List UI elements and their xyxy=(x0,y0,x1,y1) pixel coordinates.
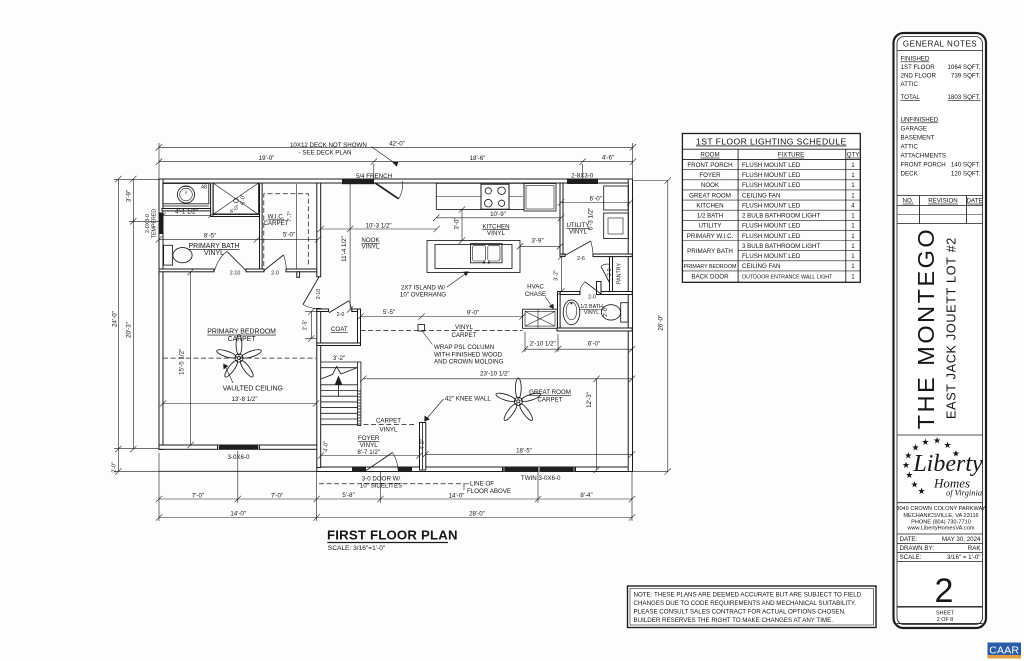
svg-text:CAAR: CAAR xyxy=(989,645,1019,657)
window W1: left wall 2-0X3-0 tempered xyxy=(159,213,162,235)
drawing title: first floor plan xyxy=(327,528,458,552)
svg-text:1ST FLOOR: 1ST FLOOR xyxy=(901,64,936,71)
dim line: kitchen 10'-9" xyxy=(433,215,564,221)
interior wall: W.I.C. left xyxy=(260,183,263,269)
dim line: great room 12'-3" vertical xyxy=(593,376,599,474)
label: utility 6'-0" xyxy=(590,196,602,203)
svg-text:2ND FLOOR: 2ND FLOOR xyxy=(901,73,937,80)
svg-text:18'-5": 18'-5" xyxy=(516,447,532,454)
svg-text:2'-10 1/2": 2'-10 1/2" xyxy=(530,340,556,347)
svg-text:7'-7": 7'-7" xyxy=(288,211,294,222)
svg-text:FIXTURE: FIXTURE xyxy=(778,152,804,159)
svg-text:DATE:: DATE: xyxy=(900,536,918,543)
svg-text:8'-7 1/2": 8'-7 1/2" xyxy=(357,449,380,456)
svg-text:2-0X3-0: 2-0X3-0 xyxy=(145,214,151,233)
label: 19'-0" xyxy=(259,155,275,162)
fixture: primary toilet xyxy=(164,245,192,265)
leader: psl column xyxy=(423,332,433,345)
title block: plan name vertical xyxy=(913,227,959,429)
svg-text:1/2 BATH: 1/2 BATH xyxy=(697,213,723,220)
fixture: primary bath vanity counter xyxy=(163,184,209,207)
interior wall: shower left stub xyxy=(211,183,214,217)
svg-text:10" OVERHANG: 10" OVERHANG xyxy=(400,292,446,299)
svg-text:★: ★ xyxy=(902,460,910,470)
svg-text:18'-6": 18'-6" xyxy=(470,155,486,162)
interior wall: below shower xyxy=(213,214,260,217)
svg-text:CARPET: CARPET xyxy=(376,417,401,424)
svg-text:DRAWN BY:: DRAWN BY: xyxy=(900,545,935,552)
svg-text:3'-2": 3'-2" xyxy=(333,355,345,362)
svg-text:ATTACHMENTS: ATTACHMENTS xyxy=(901,153,947,160)
svg-text:1064 SQFT.: 1064 SQFT. xyxy=(947,64,980,71)
title block: finished areas xyxy=(901,56,981,102)
svg-text:DECK: DECK xyxy=(901,171,919,178)
interior wall: bath/bedroom wall west segment xyxy=(159,269,214,272)
label: coat xyxy=(331,326,348,333)
leader: line of floor above xyxy=(463,484,465,490)
dim line: half-bath hall 3'-2" vertical xyxy=(558,253,564,294)
svg-text:CARPET: CARPET xyxy=(263,220,288,227)
svg-text:FLUSH MOUNT LED: FLUSH MOUNT LED xyxy=(742,233,801,240)
svg-text:9'-0": 9'-0" xyxy=(467,310,479,317)
label: vaulted ceiling xyxy=(223,386,283,393)
interior wall: utility bottom west stub xyxy=(560,254,565,257)
svg-text:1: 1 xyxy=(851,182,855,189)
svg-text:3'-2": 3'-2" xyxy=(554,270,560,281)
svg-text:Liberty: Liberty xyxy=(912,451,983,477)
svg-text:VINYL: VINYL xyxy=(569,229,587,236)
svg-text:VINYL: VINYL xyxy=(204,250,224,257)
lighting schedule title xyxy=(696,137,847,147)
dim line: great room 23'-10 1/2" xyxy=(360,376,635,382)
svg-text:3'-0": 3'-0" xyxy=(454,217,461,229)
svg-text:GREAT ROOM: GREAT ROOM xyxy=(529,389,571,396)
line of floor above dashed xyxy=(319,483,469,485)
exterior wall: right xyxy=(628,179,632,472)
svg-text:KITCHEN: KITCHEN xyxy=(696,203,723,210)
svg-text:1: 1 xyxy=(851,243,855,250)
dim line: hall 5'-5" / 9'-0" xyxy=(357,313,525,319)
label: coat 2'-5" xyxy=(303,320,309,331)
label: 4'-6" xyxy=(602,155,614,162)
label: bath door 2-10 xyxy=(230,270,241,276)
window W4: utility 2-8X3-0 xyxy=(567,179,598,184)
svg-text:1: 1 xyxy=(851,253,855,260)
knee wall at great room xyxy=(420,423,426,471)
svg-text:1: 1 xyxy=(851,223,855,230)
svg-text:8049 CROWN COLONY PARKWAY: 8049 CROWN COLONY PARKWAY xyxy=(896,506,986,512)
svg-text:6'-3 1/2": 6'-3 1/2" xyxy=(587,208,594,231)
label: 10'-9" xyxy=(490,211,506,218)
label: bath 6'-0" xyxy=(588,340,600,347)
svg-text:1803 SQFT.: 1803 SQFT. xyxy=(947,94,980,101)
svg-text:FLUSH MOUNT LED: FLUSH MOUNT LED xyxy=(742,223,801,230)
porch edge line xyxy=(159,470,317,472)
label: utility door 2-6 xyxy=(577,256,585,262)
label: 23'-10 1/2" xyxy=(480,371,510,378)
label: great room xyxy=(529,389,571,403)
svg-text:CARPET: CARPET xyxy=(228,336,257,343)
label: psl column note xyxy=(434,344,504,366)
label: 13'-8 1/2" xyxy=(231,396,257,403)
svg-text:VINYL: VINYL xyxy=(487,230,505,237)
svg-text:VINYL: VINYL xyxy=(380,427,398,434)
window W3: twin 3-0X6-0 great room xyxy=(502,467,576,472)
dim line: nook 10'-3 1/2" xyxy=(318,226,440,232)
svg-text:42'-0": 42'-0" xyxy=(389,141,405,148)
stairs railing balusters xyxy=(358,362,361,426)
fixture: washer box xyxy=(604,186,629,210)
svg-text:TOTAL: TOTAL xyxy=(901,94,921,101)
leader: deck note xyxy=(371,147,398,167)
dim line: vanity 4'-1 1/2" xyxy=(160,213,213,218)
svg-text:VINYL: VINYL xyxy=(360,442,378,449)
dim line: utility 6'-0" xyxy=(558,199,633,205)
svg-text:120 SQFT.: 120 SQFT. xyxy=(951,171,981,178)
label: wic 7'-7" xyxy=(288,211,294,222)
svg-text:FLUSH MOUNT LED: FLUSH MOUNT LED xyxy=(742,182,801,189)
svg-text:BASEMENT: BASEMENT xyxy=(901,135,935,142)
svg-text:CARPET: CARPET xyxy=(537,396,562,403)
svg-text:8'-5": 8'-5" xyxy=(204,233,216,240)
svg-text:CARPET: CARPET xyxy=(451,332,476,339)
interior wall: half-bath top west segment xyxy=(558,292,581,295)
svg-text:48: 48 xyxy=(201,185,207,191)
ceiling fan: primary bedroom xyxy=(216,335,262,379)
fixture: range/stove xyxy=(481,184,509,209)
label: bottom dims row1 xyxy=(192,492,593,499)
svg-text:15'-5 1/2": 15'-5 1/2" xyxy=(179,349,186,375)
interior wall: kitchen/utility xyxy=(560,183,563,255)
svg-text:GREAT ROOM: GREAT ROOM xyxy=(689,192,731,199)
label: island note xyxy=(400,284,446,298)
svg-text:AND CROWN MOLDING: AND CROWN MOLDING xyxy=(434,359,504,366)
door D1: french leaf and swing xyxy=(375,181,403,199)
lighting schedule rows xyxy=(684,162,856,280)
svg-text:PRIMARY BEDROOM: PRIMARY BEDROOM xyxy=(684,264,737,270)
svg-text:28'-0": 28'-0" xyxy=(469,510,485,517)
interior wall: utility bottom east / pantry top xyxy=(593,254,632,257)
liberty homes logo script xyxy=(912,451,983,498)
extension lines: bottom dims xyxy=(159,451,632,521)
exterior wall: top xyxy=(159,179,632,183)
door D4: wic door leaf xyxy=(264,255,286,271)
label: half bath door 2-0 xyxy=(588,295,596,301)
svg-text:2-10: 2-10 xyxy=(230,270,241,276)
svg-text:1: 1 xyxy=(851,192,855,199)
interior wall: half-bath bottom xyxy=(557,328,632,331)
title block: date/drawn/scale rows xyxy=(897,534,983,562)
door D8: pantry door leaf xyxy=(601,264,610,283)
svg-text:10'-3 1/2": 10'-3 1/2" xyxy=(366,222,392,229)
interior wall: bath/bedroom wall mid segment xyxy=(246,269,264,272)
label: 2'-10 1/2" xyxy=(530,340,556,347)
svg-text:PLEASE CONSULT SALES CONTRACT: PLEASE CONSULT SALES CONTRACT FOR ACTUAL… xyxy=(634,609,847,616)
svg-text:TWIN 3-0X6-0: TWIN 3-0X6-0 xyxy=(521,475,561,482)
dim line: bath/wic 8'-5" / 5'-0" xyxy=(156,236,321,242)
svg-text:FRONT PORCH: FRONT PORCH xyxy=(687,162,732,169)
leader: hvac chase xyxy=(545,297,554,310)
dim line: left 3'-9" / 20'-3" xyxy=(130,176,136,452)
svg-text:NOTE: THESE PLANS ARE DEEMED A: NOTE: THESE PLANS ARE DEEMED ACCURATE BU… xyxy=(634,592,862,599)
label: 9'-0" xyxy=(467,310,479,317)
label: toilet 2'-0" xyxy=(603,306,609,317)
wall stub below wic xyxy=(297,272,300,278)
interior wall: W.I.C. right / hall west (upper) xyxy=(317,183,321,277)
extension lines: top dims xyxy=(159,143,633,181)
svg-text:★: ★ xyxy=(904,450,912,460)
label: bedroom door 2-10 xyxy=(316,289,322,300)
svg-text:2X7 ISLAND W/: 2X7 ISLAND W/ xyxy=(401,284,446,291)
liberty homes logo stars xyxy=(902,436,960,496)
interior wall: coat closet top east segment xyxy=(352,309,361,312)
label: primary bath room xyxy=(189,243,240,257)
ceiling fan: great room xyxy=(495,378,541,422)
label: 5/4 french xyxy=(356,173,392,180)
svg-text:MAY 30, 2024: MAY 30, 2024 xyxy=(942,536,981,543)
dim line: half-bath 2'-10 1/2" / 6'-0" xyxy=(522,332,635,352)
svg-text:FLUSH MOUNT LED: FLUSH MOUNT LED xyxy=(742,172,801,179)
svg-text:ATTIC: ATTIC xyxy=(901,81,919,88)
svg-text:BUILDER RESERVES THE RIGHT TO: BUILDER RESERVES THE RIGHT TO MAKE CHANG… xyxy=(634,617,834,624)
svg-text:739 SQFT.: 739 SQFT. xyxy=(951,73,981,80)
dim line: top segments 19'/18'-6"/4'-6" xyxy=(156,159,636,165)
svg-text:PRIMARY BATH: PRIMARY BATH xyxy=(687,248,733,255)
label: 10'-3 1/2" xyxy=(366,222,392,229)
svg-text:SHEET: SHEET xyxy=(936,611,955,617)
label: pantry xyxy=(607,263,623,284)
svg-text:20'-3": 20'-3" xyxy=(126,322,133,338)
svg-text:5'-8": 5'-8" xyxy=(342,492,354,499)
svg-text:www.LibertyHomesVA.com: www.LibertyHomesVA.com xyxy=(906,526,974,532)
label: wic door 2-0 xyxy=(271,270,279,276)
svg-text:42" KNEE WALL: 42" KNEE WALL xyxy=(445,395,492,402)
svg-text:2-0: 2-0 xyxy=(607,268,613,276)
svg-text:2: 2 xyxy=(935,572,954,610)
svg-text:2 OF 8: 2 OF 8 xyxy=(937,617,953,623)
dim line: foyer 8'-7 1/2" xyxy=(318,452,423,458)
svg-text:LINE OF: LINE OF xyxy=(470,480,494,487)
svg-text:TEMPERED: TEMPERED xyxy=(151,209,157,239)
svg-text:ATTIC: ATTIC xyxy=(901,144,919,151)
svg-text:4'-0": 4'-0" xyxy=(420,439,426,450)
psl column xyxy=(418,325,425,332)
door D2: front door sidelites xyxy=(352,467,412,472)
exterior wall: bedroom bottom xyxy=(159,445,319,449)
label: primary bedroom xyxy=(207,329,276,343)
title block: logo section divider xyxy=(897,435,983,503)
svg-text:2'-0": 2'-0" xyxy=(112,462,118,473)
svg-text:19'-0": 19'-0" xyxy=(259,155,275,162)
label: 5'-5" xyxy=(383,309,395,316)
dim line: nook vertical 11'-4 1/2" xyxy=(347,184,353,313)
label: 2-8X3-0 window xyxy=(571,173,594,180)
svg-text:NO.: NO. xyxy=(902,198,913,205)
svg-text:THE MONTEGO: THE MONTEGO xyxy=(913,227,939,429)
svg-text:FLUSH MOUNT LED: FLUSH MOUNT LED xyxy=(742,203,801,210)
svg-text:4'-6": 4'-6" xyxy=(602,155,614,162)
fixture: hvac chase with X xyxy=(523,309,558,328)
label: 48 vanity xyxy=(201,185,207,191)
label: 4'-1 1/2" xyxy=(175,209,198,216)
label: vinyl/carpet transition xyxy=(451,324,476,339)
svg-text:1: 1 xyxy=(851,273,855,280)
svg-text:1: 1 xyxy=(851,233,855,240)
svg-text:PRIMARY W.I.C.: PRIMARY W.I.C. xyxy=(687,233,734,240)
door D9: half-bath door leaf xyxy=(580,282,602,294)
interior wall: vanity base xyxy=(162,209,212,211)
label: carpet/vinyl at stairs xyxy=(376,417,401,433)
svg-text:PHONE (804) 730-7710: PHONE (804) 730-7710 xyxy=(911,519,971,525)
dim line: bottom 14'-0" / 28'-0" xyxy=(156,514,635,520)
interior wall: stub at half-bath door hinge xyxy=(597,282,602,295)
svg-text:7'-0": 7'-0" xyxy=(192,492,204,499)
title block: address xyxy=(896,506,986,531)
svg-text:★: ★ xyxy=(917,486,925,496)
label: deck note xyxy=(290,142,367,157)
fixture: kitchen island with overhang xyxy=(427,241,520,273)
interior wall: half-bath left xyxy=(558,292,561,332)
svg-text:23'-10 1/2": 23'-10 1/2" xyxy=(480,371,510,378)
svg-text:FINISHED: FINISHED xyxy=(901,56,930,63)
title block: unfinished areas xyxy=(901,117,981,178)
interior wall: coat closet bottom xyxy=(317,343,361,346)
dim line: 3'-9" island to wall xyxy=(517,243,563,249)
svg-text:EAST JACK JOUETT LOT #2: EAST JACK JOUETT LOT #2 xyxy=(945,237,959,419)
svg-text:★: ★ xyxy=(905,470,913,480)
svg-text:2-0: 2-0 xyxy=(337,312,345,318)
dim line: bedroom 15'-5 1/2" vertical xyxy=(187,269,193,448)
svg-text:SCALE:: SCALE: xyxy=(900,554,922,561)
fixture: island double sink xyxy=(471,244,503,264)
fixture: half-bath toilet xyxy=(601,303,628,322)
svg-text:VINYL: VINYL xyxy=(455,324,473,331)
svg-text:140 SQFT.: 140 SQFT. xyxy=(951,162,981,169)
svg-text:CEILING FAN: CEILING FAN xyxy=(742,263,781,270)
caar logo xyxy=(988,643,1022,659)
label: 12'-3" xyxy=(586,392,593,408)
label: 18'-6" xyxy=(470,155,486,162)
svg-text:FOYER: FOYER xyxy=(699,172,721,179)
dim line: great room 18'-5" xyxy=(422,451,635,457)
svg-text:1ST FLOOR LIGHTING SCHEDULE: 1ST FLOOR LIGHTING SCHEDULE xyxy=(696,137,847,147)
svg-text:1: 1 xyxy=(851,172,855,179)
wic shelving dashed xyxy=(264,194,309,267)
svg-text:11'-4 1/2": 11'-4 1/2" xyxy=(341,236,348,262)
label: shower 6'-0" xyxy=(241,194,247,205)
svg-text:5/4 FRENCH: 5/4 FRENCH xyxy=(356,173,392,180)
fixture: half-bath pedestal sink xyxy=(563,300,580,325)
leader: vaulted ceiling xyxy=(223,364,233,384)
svg-text:2-6: 2-6 xyxy=(577,256,585,262)
svg-text:CEILING FAN: CEILING FAN xyxy=(742,192,781,199)
dim line: left 24'-0" / 2'-0" xyxy=(115,176,121,475)
extension lines: left dims xyxy=(114,179,160,471)
door D1: 5/4 french door bar xyxy=(342,179,374,184)
lighting schedule table frame xyxy=(682,134,860,283)
dim line: coat 2'-5" vertical xyxy=(305,308,317,341)
label: knee 4'-0" xyxy=(420,439,426,450)
svg-text:10X12 DECK NOT SHOWN: 10X12 DECK NOT SHOWN xyxy=(290,142,367,149)
title block: sheet number xyxy=(897,572,983,624)
label: 42in knee wall xyxy=(445,395,492,402)
leader: 42in knee wall xyxy=(424,399,443,422)
label: 5'-0" xyxy=(283,232,295,239)
svg-text:3 BULB BATHROOM LIGHT: 3 BULB BATHROOM LIGHT xyxy=(742,243,820,250)
svg-text:SCALE: 3/16"=1'-0": SCALE: 3/16"=1'-0" xyxy=(328,545,386,552)
svg-text:CHANGES DUE TO CODE REQUIREMEN: CHANGES DUE TO CODE REQUIREMENTS AND MEC… xyxy=(634,600,857,607)
label: bedroom window 3-0X6-0 xyxy=(227,454,250,461)
stairs up arrow xyxy=(335,376,342,397)
svg-text:2-8X3-0: 2-8X3-0 xyxy=(571,173,594,180)
dim line: bedroom 13'-8 1/2" xyxy=(160,400,319,406)
svg-text:10" SIDELITES: 10" SIDELITES xyxy=(360,483,402,490)
label: 24'-0" left xyxy=(112,311,119,327)
exterior wall: foyer/great-room bottom xyxy=(317,467,632,472)
svg-text:PRIMARY BATH: PRIMARY BATH xyxy=(189,243,240,250)
svg-text:FLUSH MOUNT LED: FLUSH MOUNT LED xyxy=(742,253,801,260)
door D5: bedroom door leaf xyxy=(303,277,319,309)
svg-text:- SEE DECK PLAN: - SEE DECK PLAN xyxy=(299,150,352,157)
label: coat door 2-0 xyxy=(337,312,345,318)
flooring transition dashed: hall vinyl/carpet xyxy=(361,329,523,331)
svg-text:4: 4 xyxy=(851,203,855,210)
svg-text:2-0: 2-0 xyxy=(588,295,596,301)
label: 8'-5" xyxy=(204,233,216,240)
svg-text:8'-4": 8'-4" xyxy=(580,492,592,499)
door D6: coat closet door leaf xyxy=(329,301,352,313)
svg-text:2 BULB BATHROOM LIGHT: 2 BULB BATHROOM LIGHT xyxy=(742,213,820,220)
svg-text:13'-8 1/2": 13'-8 1/2" xyxy=(231,396,257,403)
label: 3'-2" hall xyxy=(554,270,560,281)
door D3: primary bath door leaf xyxy=(215,252,247,271)
label: 3'-9" xyxy=(531,238,543,245)
dim line: right 26'-0" xyxy=(633,177,671,474)
svg-text:WITH FINISHED WOOD: WITH FINISHED WOOD xyxy=(434,351,503,358)
label: 18'-5" xyxy=(516,447,532,454)
fixture: shower with X xyxy=(213,183,259,215)
interior wall: bath/bedroom wall east segment xyxy=(286,269,320,272)
svg-text:6'-0": 6'-0" xyxy=(588,340,600,347)
svg-text:VAULTED CEILING: VAULTED CEILING xyxy=(223,386,283,393)
leader: island note xyxy=(447,271,469,287)
svg-text:5'-5": 5'-5" xyxy=(383,309,395,316)
window W2: bedroom 3-0X6-0 xyxy=(217,445,260,450)
vaulted ceiling dashed ridge xyxy=(163,357,316,359)
svg-text:WRAP PSL COLUMN: WRAP PSL COLUMN xyxy=(434,344,494,351)
svg-text:NOOK: NOOK xyxy=(701,182,720,189)
svg-text:of Virginia: of Virginia xyxy=(946,488,982,498)
label: 42'-0" xyxy=(389,141,405,148)
svg-text:14'-0": 14'-0" xyxy=(449,492,465,499)
fixture: dryer box with inner square xyxy=(604,213,629,239)
interior wall: bedroom east / foyer west (lower) xyxy=(317,309,321,468)
svg-text:FLUSH MOUNT LED: FLUSH MOUNT LED xyxy=(742,162,801,169)
label: half bath room xyxy=(580,304,603,316)
svg-text:3-0 DOOR W/: 3-0 DOOR W/ xyxy=(362,475,401,482)
label: kitchen room xyxy=(482,223,509,237)
svg-text:4'-0": 4'-0" xyxy=(323,441,329,452)
svg-text:UNFINISHED: UNFINISHED xyxy=(901,117,939,124)
svg-text:3'-9": 3'-9" xyxy=(126,190,133,202)
interior wall: coat closet right xyxy=(358,309,361,346)
svg-text:1: 1 xyxy=(851,162,855,169)
svg-text:VINYL: VINYL xyxy=(362,244,380,251)
interior wall: pantry left xyxy=(610,257,613,293)
interior wall: coat closet top west segment xyxy=(317,309,329,312)
label: utility room xyxy=(566,222,589,236)
svg-text:PANTRY: PANTRY xyxy=(617,263,623,284)
